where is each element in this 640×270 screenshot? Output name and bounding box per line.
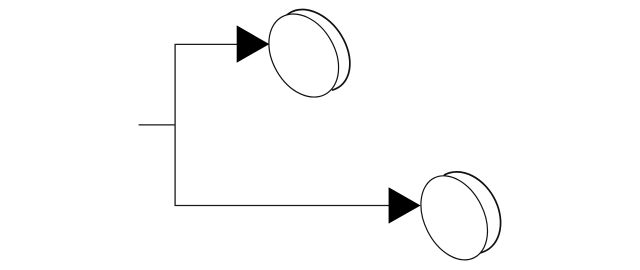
arrow top bbox=[237, 25, 270, 62]
wire bottom branch bbox=[175, 205, 390, 207]
part disc top: rim outer edge (back ellipse arc) bbox=[287, 10, 350, 91]
wire vertical branch bbox=[174, 44, 176, 205]
wire top branch bbox=[175, 43, 239, 45]
part disc bottom: rim outer edge (back ellipse arc) bbox=[444, 172, 500, 253]
arrow bottom bbox=[389, 187, 421, 223]
wire stub left bbox=[139, 124, 176, 126]
part disc bottom: front face ellipse bbox=[408, 165, 501, 270]
part disc top: front face ellipse bbox=[255, 2, 353, 110]
